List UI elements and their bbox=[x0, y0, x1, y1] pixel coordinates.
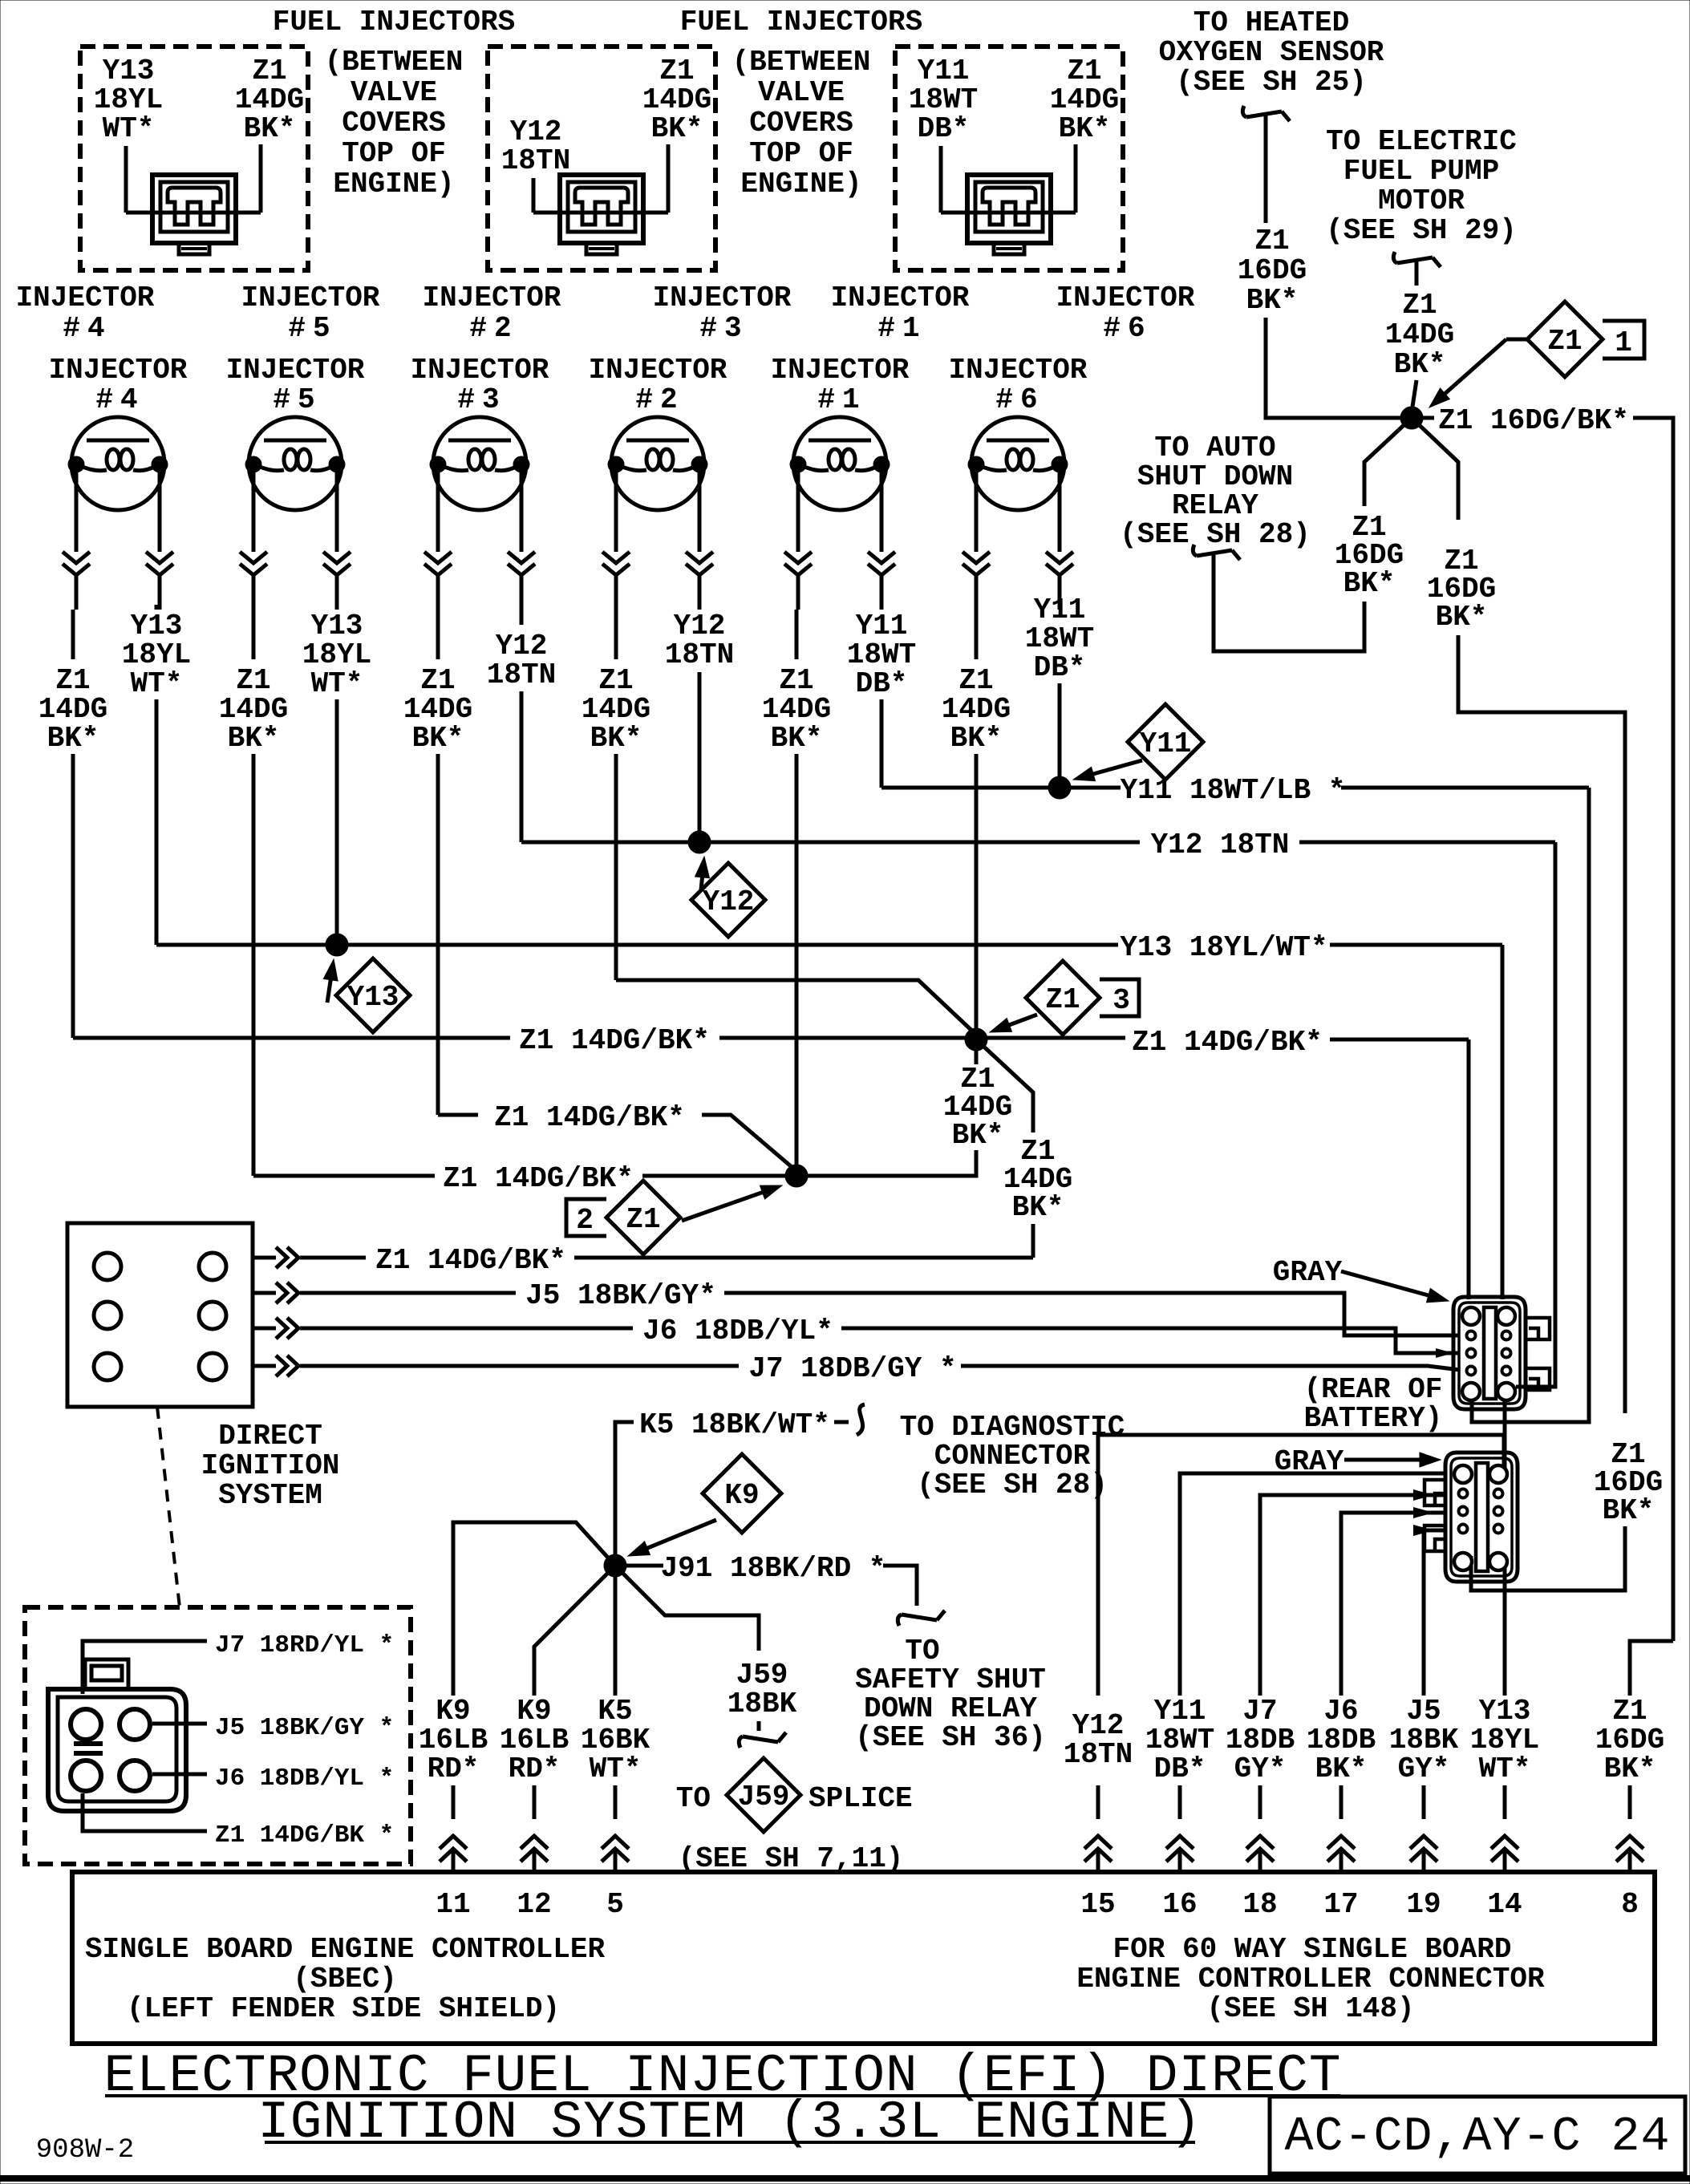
svg-text:Z1: Z1 bbox=[626, 1203, 660, 1236]
wire K9 to pin 12 bbox=[534, 1566, 615, 1696]
svg-text:BK*: BK* bbox=[952, 1119, 1004, 1152]
wire segment x=1099 bbox=[880, 699, 884, 788]
wire J91 18BK/RD* bbox=[626, 1564, 663, 1568]
svg-text:FOR 60 WAY SINGLE BOARD: FOR 60 WAY SINGLE BOARD bbox=[1113, 1933, 1512, 1966]
svg-text:Z1: Z1 bbox=[779, 664, 813, 697]
svg-text:DB*: DB* bbox=[1034, 651, 1086, 684]
splice marker diamond 2 Z1 bbox=[682, 1193, 763, 1221]
svg-text:Y11: Y11 bbox=[856, 610, 908, 642]
svg-text:14DG: 14DG bbox=[219, 693, 288, 726]
wire Y13 vertical into connector C1 bbox=[1501, 945, 1505, 1299]
svg-text:14DG: 14DG bbox=[642, 83, 711, 116]
svg-text:BK*: BK* bbox=[1604, 1752, 1656, 1785]
svg-text:TO HEATED: TO HEATED bbox=[1194, 6, 1349, 39]
svg-text:J59: J59 bbox=[736, 1659, 788, 1692]
svg-text:14DG: 14DG bbox=[39, 693, 107, 726]
svg-text:18WT: 18WT bbox=[1025, 622, 1094, 655]
wire J7 feed to C2 / pin 18 bbox=[1260, 1495, 1444, 1696]
wire Y13 18YL/WT* run bbox=[156, 943, 1118, 947]
splice dot Z1-2 (node J2) bbox=[785, 1165, 808, 1187]
svg-text:Y13: Y13 bbox=[311, 610, 363, 642]
svg-text:Z1: Z1 bbox=[958, 664, 993, 697]
svg-text:2: 2 bbox=[576, 1204, 594, 1237]
wire Z1 16DG BK* to ASD relay bbox=[1364, 418, 1412, 506]
svg-text:Z1 16DG/BK*: Z1 16DG/BK* bbox=[1438, 404, 1629, 437]
svg-text:Z1: Z1 bbox=[236, 664, 270, 697]
svg-text:5: 5 bbox=[606, 1888, 624, 1921]
svg-text:(SEE SH 36): (SEE SH 36) bbox=[855, 1721, 1046, 1754]
svg-text:J6 18DB/YL *: J6 18DB/YL * bbox=[215, 1765, 394, 1793]
wire segment x=195 bbox=[155, 699, 159, 945]
svg-text:BK*: BK* bbox=[244, 112, 296, 145]
svg-text:TO: TO bbox=[676, 1782, 711, 1815]
svg-text:FUEL INJECTORS: FUEL INJECTORS bbox=[680, 6, 922, 38]
svg-text:INJECTOR: INJECTOR bbox=[241, 282, 380, 314]
svg-text:18BK: 18BK bbox=[1389, 1724, 1459, 1757]
svg-text:Z1 14DG/BK *: Z1 14DG/BK * bbox=[215, 1821, 394, 1850]
svg-text:TOP OF: TOP OF bbox=[342, 137, 446, 170]
svg-text:11: 11 bbox=[436, 1888, 470, 1921]
svg-text:14: 14 bbox=[1487, 1888, 1522, 1921]
svg-text:#4: #4 bbox=[63, 312, 111, 345]
svg-text:18DB: 18DB bbox=[1226, 1724, 1295, 1757]
svg-text:#1: #1 bbox=[877, 312, 926, 345]
svg-text:SAFETY SHUT: SAFETY SHUT bbox=[855, 1663, 1046, 1696]
svg-text:BK*: BK* bbox=[590, 722, 642, 755]
svg-text:INJECTOR: INJECTOR bbox=[949, 354, 1088, 387]
svg-text:16DG: 16DG bbox=[1238, 254, 1307, 287]
svg-text:GY*: GY* bbox=[1398, 1752, 1450, 1785]
wire Z1 14DG/BK* DIS to node J3 leg bbox=[574, 1256, 1033, 1260]
splice dot K9 bbox=[604, 1554, 626, 1577]
wire Z1 from injector 2 to node J3 bbox=[616, 980, 976, 1035]
svg-text:SINGLE BOARD ENGINE CONTROLLER: SINGLE BOARD ENGINE CONTROLLER bbox=[85, 1933, 606, 1966]
svg-text:Z1: Z1 bbox=[1547, 325, 1582, 358]
svg-text:Z1 14DG/BK*: Z1 14DG/BK* bbox=[443, 1162, 634, 1195]
svg-text:DOWN RELAY: DOWN RELAY bbox=[864, 1692, 1037, 1725]
direct ignition system box bbox=[67, 1223, 253, 1407]
fuel injector connector detail box (dashed) bbox=[80, 47, 308, 270]
injector wires with inline connectors bbox=[796, 472, 800, 552]
wire stubs inside box bbox=[124, 146, 128, 213]
wire Z1 14DG/BK* from DIS bbox=[253, 1256, 276, 1260]
svg-text:#4: #4 bbox=[95, 383, 144, 416]
injector wires with inline connectors bbox=[436, 472, 440, 552]
svg-text:BK*: BK* bbox=[1315, 1752, 1368, 1785]
svg-text:RELAY: RELAY bbox=[1172, 489, 1258, 522]
svg-text:(SEE SH 28): (SEE SH 28) bbox=[1120, 518, 1311, 551]
wire K9 to pin 11 bbox=[453, 1522, 615, 1696]
wire Z1 14DG/BK* to node J2 (upper) bbox=[438, 1113, 478, 1117]
svg-text:18TN: 18TN bbox=[501, 144, 570, 177]
svg-text:(BETWEEN: (BETWEEN bbox=[325, 46, 464, 79]
svg-text:16: 16 bbox=[1162, 1888, 1197, 1921]
svg-text:18TN: 18TN bbox=[487, 658, 556, 691]
svg-text:COVERS: COVERS bbox=[342, 107, 446, 140]
wire stubs inside box bbox=[532, 178, 536, 213]
svg-text:18TN: 18TN bbox=[1064, 1738, 1133, 1771]
connector C1 (rear of battery, gray) bbox=[1453, 1297, 1526, 1409]
splice marker diamond Y12 bbox=[699, 877, 703, 906]
svg-text:INJECTOR: INJECTOR bbox=[1056, 282, 1195, 314]
svg-text:WT*: WT* bbox=[590, 1752, 642, 1785]
svg-text:8: 8 bbox=[1621, 1888, 1639, 1921]
svg-text:Z1: Z1 bbox=[252, 55, 286, 87]
wire Z1 16DG BK* from oxygen sensor bbox=[1264, 115, 1268, 223]
svg-text:17: 17 bbox=[1323, 1888, 1358, 1921]
svg-text:16DG: 16DG bbox=[1595, 1724, 1664, 1757]
fuel injector connector detail box (dashed) bbox=[895, 47, 1123, 270]
svg-text:#5: #5 bbox=[288, 312, 337, 345]
svg-text:INJECTOR: INJECTOR bbox=[589, 354, 727, 387]
svg-text:WT*: WT* bbox=[1479, 1752, 1531, 1785]
svg-text:Z1: Z1 bbox=[659, 55, 694, 87]
wire node J2 to node J3 left leg bbox=[796, 1150, 976, 1176]
svg-text:INJECTOR: INJECTOR bbox=[16, 282, 155, 314]
svg-text:12: 12 bbox=[517, 1888, 551, 1921]
wire Z1 to pin 8 bbox=[1630, 1641, 1673, 1696]
svg-text:GY*: GY* bbox=[1234, 1752, 1287, 1785]
wire Z1 14DG/BK* main run bbox=[73, 1036, 510, 1040]
svg-text:(SEE SH 29): (SEE SH 29) bbox=[1326, 214, 1517, 247]
svg-text:BK*: BK* bbox=[1012, 1191, 1064, 1224]
wire Z1 16DG BK* right leg to connector C2 bbox=[1412, 418, 1458, 520]
svg-text:#6: #6 bbox=[1103, 312, 1152, 345]
svg-text:Z1: Z1 bbox=[1254, 225, 1289, 257]
svg-text:INJECTOR: INJECTOR bbox=[411, 354, 549, 387]
svg-text:Z1: Z1 bbox=[1612, 1695, 1647, 1728]
svg-text:#6: #6 bbox=[995, 383, 1044, 416]
svg-text:TOP OF: TOP OF bbox=[749, 137, 853, 170]
wire J6 18DB/YL* from DIS bbox=[253, 1327, 276, 1331]
svg-text:IGNITION: IGNITION bbox=[201, 1449, 340, 1482]
svg-text:Y12: Y12 bbox=[674, 610, 726, 642]
svg-text:BATTERY): BATTERY) bbox=[1304, 1402, 1443, 1435]
splice marker diamond J59 bbox=[727, 1758, 800, 1832]
svg-text:Y12: Y12 bbox=[703, 885, 755, 918]
wire Z1 14DG/BK* vertical into connector C1 bbox=[1467, 1039, 1471, 1299]
svg-text:#3: #3 bbox=[457, 383, 506, 416]
svg-text:Y11: Y11 bbox=[1140, 727, 1192, 760]
svg-text:J6: J6 bbox=[1323, 1695, 1358, 1728]
wire node J3 right leg Z1 bbox=[976, 1039, 1033, 1133]
wire Y11 18WT/LB* run bbox=[881, 786, 1121, 790]
svg-text:Y13 18YL/WT*: Y13 18YL/WT* bbox=[1120, 931, 1327, 964]
wire segment x=768 bbox=[614, 754, 618, 980]
wire segment x=1217 bbox=[975, 754, 979, 1039]
wire J6 feed to C2 / pin 17 bbox=[1341, 1513, 1444, 1696]
svg-text:16LB: 16LB bbox=[500, 1724, 569, 1757]
svg-text:#2: #2 bbox=[635, 383, 684, 416]
injector wires with inline connectors bbox=[75, 472, 79, 552]
svg-text:1: 1 bbox=[1615, 326, 1632, 359]
svg-text:BK*: BK* bbox=[1436, 601, 1488, 634]
svg-text:18YL: 18YL bbox=[122, 638, 191, 671]
svg-text:GRAY: GRAY bbox=[1273, 1256, 1343, 1289]
wire Y12 18TN run bbox=[521, 841, 1140, 845]
svg-text:Y11: Y11 bbox=[1154, 1695, 1206, 1728]
svg-text:BK*: BK* bbox=[1603, 1494, 1655, 1527]
svg-text:BK*: BK* bbox=[1246, 284, 1299, 317]
svg-text:18: 18 bbox=[1242, 1888, 1277, 1921]
wire J5 to connector C1 bbox=[724, 1293, 1460, 1335]
svg-text:Y11: Y11 bbox=[918, 55, 970, 87]
svg-text:J7 18DB/GY *: J7 18DB/GY * bbox=[748, 1352, 956, 1385]
svg-text:INJECTOR: INJECTOR bbox=[226, 354, 365, 387]
injector connector symbol bbox=[560, 175, 643, 243]
svg-text:16BK: 16BK bbox=[581, 1724, 650, 1757]
svg-text:(SEE SH 25): (SEE SH 25) bbox=[1176, 66, 1367, 99]
wire Z1 14DG/BK* to node J2 (lower) bbox=[253, 1174, 435, 1178]
svg-text:J7: J7 bbox=[1242, 1695, 1277, 1728]
svg-text:15: 15 bbox=[1080, 1888, 1115, 1921]
svg-text:J5 18BK/GY*: J5 18BK/GY* bbox=[525, 1279, 716, 1312]
svg-text:Y12: Y12 bbox=[496, 630, 548, 662]
svg-text:MOTOR: MOTOR bbox=[1378, 184, 1465, 217]
wire J59 18BK branch bbox=[615, 1566, 759, 1651]
svg-text:BK*: BK* bbox=[47, 722, 99, 755]
injector wires with inline connectors bbox=[252, 472, 256, 552]
svg-text:AC-CD,AY-C 24: AC-CD,AY-C 24 bbox=[1284, 2110, 1670, 2165]
wire between connectors C1 and C2 bbox=[1503, 1401, 1507, 1476]
svg-text:Z1: Z1 bbox=[55, 664, 90, 697]
svg-text:J5 18BK/GY *: J5 18BK/GY * bbox=[215, 1714, 394, 1742]
DIS connector detail dashed box bbox=[25, 1607, 411, 1864]
half connector to oxygen sensor bbox=[1242, 106, 1246, 117]
svg-text:J59: J59 bbox=[738, 1781, 790, 1813]
svg-text:WT*: WT* bbox=[131, 667, 183, 700]
svg-text:BK*: BK* bbox=[1394, 348, 1446, 381]
svg-text:Y13: Y13 bbox=[131, 610, 183, 642]
dashed leader from DIS box to connector detail bbox=[157, 1407, 180, 1607]
svg-text:Y13: Y13 bbox=[1479, 1695, 1531, 1728]
svg-text:14DG: 14DG bbox=[942, 693, 1011, 726]
svg-text:Z1: Z1 bbox=[1045, 983, 1080, 1016]
svg-text:DIRECT: DIRECT bbox=[218, 1420, 322, 1453]
svg-text:BK*: BK* bbox=[228, 722, 280, 755]
connector C2 (gray) bbox=[1445, 1453, 1518, 1582]
svg-text:TO AUTO: TO AUTO bbox=[1154, 432, 1275, 464]
wire J5 feed to C2 / pin 19 bbox=[1424, 1530, 1444, 1696]
svg-text:TO: TO bbox=[905, 1635, 939, 1667]
svg-text:14DG: 14DG bbox=[235, 83, 304, 116]
injector connector symbol bbox=[967, 175, 1051, 243]
splice marker diamond Z1 3 bbox=[1009, 1015, 1037, 1025]
wire segment x=872 bbox=[698, 672, 702, 842]
svg-text:16LB: 16LB bbox=[419, 1724, 488, 1757]
svg-text:#1: #1 bbox=[817, 383, 866, 416]
wire J7 to connector C1 bbox=[961, 1366, 1460, 1370]
splice dot Z1-3 (node J3) bbox=[965, 1028, 987, 1051]
svg-text:3: 3 bbox=[1112, 984, 1130, 1017]
svg-text:Z1 14DG/BK*: Z1 14DG/BK* bbox=[1132, 1026, 1323, 1059]
svg-text:K9: K9 bbox=[436, 1695, 470, 1728]
wire J5 18BK/GY* from DIS bbox=[253, 1291, 276, 1295]
svg-text:#2: #2 bbox=[469, 312, 518, 345]
wire K5 18BK/WT* bbox=[615, 1422, 634, 1556]
splice dot Y11 bbox=[1048, 776, 1071, 799]
svg-text:DB*: DB* bbox=[1154, 1752, 1206, 1785]
svg-text:SYSTEM: SYSTEM bbox=[218, 1479, 322, 1512]
svg-text:J7 18RD/YL *: J7 18RD/YL * bbox=[215, 1631, 394, 1659]
splice dot Y12 bbox=[688, 831, 711, 853]
injector wires with inline connectors bbox=[975, 472, 979, 552]
svg-text:J5: J5 bbox=[1406, 1695, 1441, 1728]
svg-text:Y13: Y13 bbox=[103, 55, 155, 87]
svg-text:RD*: RD* bbox=[428, 1752, 480, 1785]
svg-text:INJECTOR: INJECTOR bbox=[49, 354, 188, 387]
svg-text:BK*: BK* bbox=[1343, 567, 1396, 600]
svg-text:VALVE: VALVE bbox=[351, 76, 437, 109]
wire segment x=993 bbox=[795, 754, 799, 1176]
wire connector C2 to pin 14 bbox=[1503, 1559, 1507, 1696]
branch down to pin 15 bbox=[1098, 1435, 1504, 1696]
svg-text:18YL: 18YL bbox=[1470, 1724, 1539, 1757]
svg-text:(SEE SH 148): (SEE SH 148) bbox=[1206, 1992, 1414, 2025]
svg-text:VALVE: VALVE bbox=[758, 76, 845, 109]
svg-text:Z1: Z1 bbox=[420, 664, 455, 697]
svg-text:14DG: 14DG bbox=[1050, 83, 1119, 116]
wire Y12 vertical to pin 15 bbox=[1516, 842, 1555, 1387]
half connector to auto shut down relay bbox=[1193, 545, 1197, 556]
svg-text:K5: K5 bbox=[598, 1695, 632, 1728]
svg-text:Y12: Y12 bbox=[1072, 1709, 1125, 1742]
svg-text:(LEFT FENDER SIDE SHIELD): (LEFT FENDER SIDE SHIELD) bbox=[127, 1992, 560, 2025]
fuel injector connector detail box (dashed) bbox=[488, 47, 715, 270]
svg-text:BK*: BK* bbox=[771, 722, 823, 755]
svg-text:INJECTOR: INJECTOR bbox=[771, 354, 910, 387]
bottom border bbox=[0, 2175, 1690, 2182]
wire segment x=420 bbox=[335, 699, 339, 945]
svg-text:OXYGEN SENSOR: OXYGEN SENSOR bbox=[1159, 36, 1384, 69]
svg-text:18DB: 18DB bbox=[1307, 1724, 1376, 1757]
svg-text:Z1 14DG/BK*: Z1 14DG/BK* bbox=[494, 1101, 685, 1134]
svg-text:SPLICE: SPLICE bbox=[809, 1782, 913, 1815]
svg-text:J91 18BK/RD *: J91 18BK/RD * bbox=[661, 1552, 886, 1585]
svg-text:18WT: 18WT bbox=[909, 83, 978, 116]
svg-text:K9: K9 bbox=[724, 1479, 759, 1512]
svg-text:CONNECTOR: CONNECTOR bbox=[934, 1440, 1091, 1473]
svg-text:14DG: 14DG bbox=[582, 693, 650, 726]
svg-text:BK*: BK* bbox=[1059, 112, 1111, 145]
wire Y11 feed to C2 / pin 16 bbox=[1180, 1473, 1444, 1696]
wire J6 to connector C1 bbox=[841, 1328, 1460, 1353]
injector wires with inline connectors bbox=[614, 472, 618, 552]
splice dot Y13 bbox=[326, 934, 348, 956]
svg-text:K5 18BK/WT*: K5 18BK/WT* bbox=[639, 1408, 830, 1441]
svg-text:BK*: BK* bbox=[412, 722, 464, 755]
svg-text:#5: #5 bbox=[273, 383, 322, 416]
svg-text:Z1 14DG/BK*: Z1 14DG/BK* bbox=[375, 1244, 566, 1277]
svg-text:INJECTOR: INJECTOR bbox=[423, 282, 561, 314]
svg-text:WT*: WT* bbox=[103, 112, 155, 145]
svg-text:18WT: 18WT bbox=[847, 638, 916, 671]
svg-text:18BK: 18BK bbox=[727, 1688, 797, 1720]
splice marker diamond Z1 1 bbox=[1506, 338, 1527, 342]
wire Y11 vertical to connector C1 bbox=[1472, 788, 1589, 1422]
svg-text:COVERS: COVERS bbox=[749, 107, 853, 140]
svg-text:18YL: 18YL bbox=[94, 83, 163, 116]
svg-text:ENGINE): ENGINE) bbox=[333, 168, 454, 201]
svg-text:(SBEC): (SBEC) bbox=[293, 1963, 397, 1996]
svg-text:Z1: Z1 bbox=[1402, 289, 1437, 322]
4-way connector symbol bbox=[48, 1689, 186, 1811]
svg-text:14DG: 14DG bbox=[762, 693, 831, 726]
svg-text:J6 18DB/YL*: J6 18DB/YL* bbox=[642, 1315, 833, 1347]
svg-text:Z1: Z1 bbox=[598, 664, 633, 697]
splice marker diamond Y13 bbox=[327, 980, 330, 1003]
svg-text:Z1: Z1 bbox=[1067, 55, 1101, 87]
svg-text:TO DIAGNOSTIC: TO DIAGNOSTIC bbox=[900, 1411, 1125, 1444]
svg-text:Z1 14DG/BK*: Z1 14DG/BK* bbox=[519, 1024, 710, 1057]
wire J7 18DB/GY * from DIS bbox=[253, 1364, 276, 1368]
wire segment x=1321 bbox=[1058, 683, 1062, 788]
svg-text:BK*: BK* bbox=[651, 112, 703, 145]
svg-text:(REAR OF: (REAR OF bbox=[1304, 1373, 1443, 1406]
wire Z1 16DG/BK* from node Z1-1 to right bbox=[1423, 416, 1434, 420]
svg-text:19: 19 bbox=[1406, 1888, 1441, 1921]
connector latch tab bbox=[85, 1659, 128, 1689]
wire K5 to pin 5 bbox=[614, 1575, 618, 1696]
wire segment x=91 bbox=[71, 754, 75, 1038]
svg-text:DB*: DB* bbox=[856, 667, 908, 700]
svg-text:(BETWEEN: (BETWEEN bbox=[732, 46, 871, 79]
svg-text:Y12 18TN: Y12 18TN bbox=[1151, 829, 1290, 861]
svg-text:DB*: DB* bbox=[918, 112, 970, 145]
svg-text:ENGINE CONTROLLER CONNECTOR: ENGINE CONTROLLER CONNECTOR bbox=[1076, 1963, 1545, 1996]
svg-text:INJECTOR: INJECTOR bbox=[831, 282, 970, 314]
splice marker diamond K9 bbox=[647, 1520, 716, 1548]
wire segment x=650 bbox=[520, 691, 524, 842]
wire segment x=316 bbox=[252, 754, 256, 1176]
svg-text:SHUT DOWN: SHUT DOWN bbox=[1137, 460, 1293, 493]
svg-text:FUEL INJECTORS: FUEL INJECTORS bbox=[273, 6, 515, 38]
svg-text:K9: K9 bbox=[517, 1695, 551, 1728]
svg-text:14DG: 14DG bbox=[1385, 318, 1454, 351]
svg-text:Y13: Y13 bbox=[347, 981, 399, 1014]
svg-text:18TN: 18TN bbox=[665, 638, 734, 671]
svg-text:BK*: BK* bbox=[950, 722, 1003, 755]
splice marker diamond Y11 bbox=[1093, 760, 1142, 774]
svg-text:INJECTOR: INJECTOR bbox=[653, 282, 792, 314]
half connector to fuel pump motor bbox=[1393, 252, 1397, 263]
svg-text:18YL: 18YL bbox=[302, 638, 371, 671]
svg-text:TO ELECTRIC: TO ELECTRIC bbox=[1326, 125, 1517, 158]
wire segment x=546 bbox=[436, 754, 440, 1115]
svg-text:908W-2: 908W-2 bbox=[36, 2135, 134, 2166]
splice dot Z1 (node Z1-1) bbox=[1400, 407, 1423, 429]
svg-text:#3: #3 bbox=[699, 312, 748, 345]
svg-text:14DG: 14DG bbox=[403, 693, 472, 726]
svg-text:FUEL PUMP: FUEL PUMP bbox=[1343, 155, 1499, 188]
sheet id box AC-CD,AY-C 24 bbox=[1270, 2097, 1685, 2174]
svg-text:Y12: Y12 bbox=[510, 115, 562, 148]
svg-text:(SEE SH 28): (SEE SH 28) bbox=[917, 1469, 1108, 1501]
svg-text:WT*: WT* bbox=[311, 667, 363, 700]
svg-text:Y11 18WT/LB *: Y11 18WT/LB * bbox=[1121, 774, 1346, 807]
svg-text:RD*: RD* bbox=[509, 1752, 561, 1785]
SBEC controller box bbox=[72, 1872, 1655, 2044]
injector connector symbol bbox=[152, 175, 236, 243]
svg-text:ENGINE): ENGINE) bbox=[740, 168, 861, 201]
wire stubs inside box bbox=[939, 146, 943, 213]
svg-text:18WT: 18WT bbox=[1145, 1724, 1214, 1757]
